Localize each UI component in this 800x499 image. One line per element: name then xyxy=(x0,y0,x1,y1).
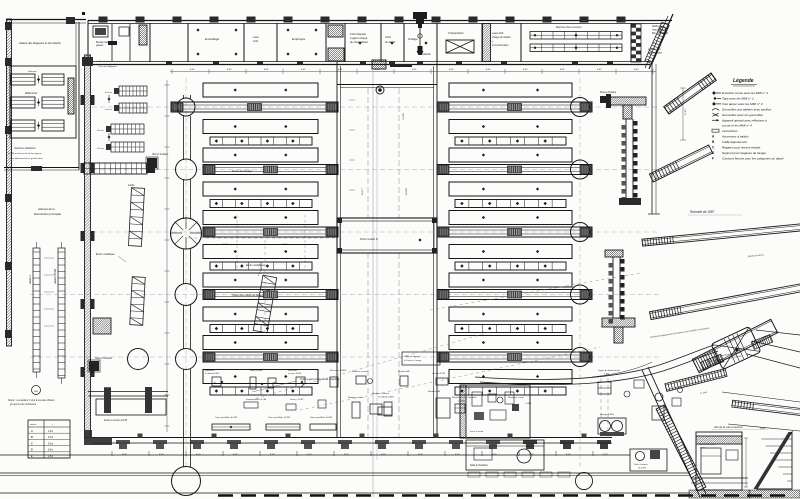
svg-text:chargé de l'atelier: chargé de l'atelier xyxy=(492,36,511,39)
svg-text:Adresse de la: Adresse de la xyxy=(37,207,55,211)
svg-text:du dépôt: du dépôt xyxy=(385,40,395,44)
svg-text:Machine-940: Machine-940 xyxy=(428,390,441,393)
svg-text:rétrocession: rétrocession xyxy=(648,50,663,54)
svg-text:n 1933: n 1933 xyxy=(525,403,532,405)
svg-text:Fosse à verser à 0,50: Fosse à verser à 0,50 xyxy=(104,419,128,422)
svg-text:Heures fontaine: Heures fontaine xyxy=(95,357,113,360)
svg-text:4 cases: 4 cases xyxy=(105,91,112,94)
svg-text:Ascenseurs pour le: Ascenseurs pour le xyxy=(699,443,716,446)
svg-text:Emballage: Emballage xyxy=(205,37,220,41)
svg-text:Puits à fermer: Puits à fermer xyxy=(634,463,648,466)
svg-text:Écran métallique: Écran métallique xyxy=(246,264,265,267)
svg-text:+: + xyxy=(653,41,655,45)
svg-text:Type avec les MMI n° 2: Type avec les MMI n° 2 xyxy=(722,96,754,100)
svg-text:à l'OM au dessus du sol du mag: à l'OM au dessus du sol du magasin xyxy=(8,153,42,155)
svg-text:Camions fermés pour les catégo: Camions fermés pour les catégories du dé… xyxy=(722,156,784,160)
svg-text:Vauchoux téléphone: Vauchoux téléphone xyxy=(14,147,36,150)
svg-text:Trains à gaz pompe été au ch: Trains à gaz pompe été au chaudière xyxy=(300,378,340,381)
svg-text:Réfectoire: Réfectoire xyxy=(25,91,38,95)
svg-text:Lorsqué D 912: Lorsqué D 912 xyxy=(432,373,446,375)
svg-text:6,5m: 6,5m xyxy=(48,450,53,452)
svg-text:Forge de déplacement: Forge de déplacement xyxy=(598,369,620,372)
svg-text:Salle à chaudière: Salle à chaudière xyxy=(470,465,488,467)
svg-text:Tours parallèles D-760: Tours parallèles D-760 xyxy=(268,417,291,419)
svg-text:Remise des ouvriers: Remise des ouvriers xyxy=(556,25,582,29)
svg-text:Caillé dajustement: Caillé dajustement xyxy=(722,140,747,144)
svg-text:F: F xyxy=(712,156,714,160)
svg-text:à agent chargé: à agent chargé xyxy=(350,36,368,40)
svg-text:Stores fontaine: Stores fontaine xyxy=(600,91,617,94)
svg-text:Meuleuse à scies: Meuleuse à scies xyxy=(508,397,524,399)
svg-text:poste: poste xyxy=(699,446,705,449)
svg-text:Mortil D-904: Mortil D-904 xyxy=(250,369,263,372)
svg-text:Voie aérien avec les MMI n° 3: Voie aérien avec les MMI n° 3 xyxy=(722,102,763,106)
svg-text:Écran métallique: Écran métallique xyxy=(96,253,115,256)
svg-text:Employés: Employés xyxy=(292,37,306,41)
svg-text:Manutention principale: Manutention principale xyxy=(34,212,62,216)
svg-text:fosse à visiter: fosse à visiter xyxy=(470,430,484,433)
svg-text:Meuleuse à rabo: Meuleuse à rabo xyxy=(348,396,364,399)
svg-text:Écrouané D-906: Écrouané D-906 xyxy=(330,369,347,372)
svg-text:8 cases: 8 cases xyxy=(97,130,104,132)
svg-text:Légende: Légende xyxy=(733,78,754,84)
svg-text:Salle pour: Salle pour xyxy=(652,24,664,28)
svg-text:6,0m: 6,0m xyxy=(48,437,53,439)
svg-text:à raboter E-903: à raboter E-903 xyxy=(205,372,220,375)
svg-text:Galerie des Magasins et des Dé: Galerie des Magasins et des Dépôts xyxy=(19,41,62,45)
svg-text:du chancelariat: du chancelariat xyxy=(350,40,368,44)
svg-text:6 cases: 6 cases xyxy=(97,148,104,150)
svg-text:Gonouilles aux ateliers avec p: Gonouilles aux ateliers avec pavillon xyxy=(722,107,772,111)
svg-text:à 80t: à 80t xyxy=(604,373,609,376)
svg-text:Lava chef: Lava chef xyxy=(492,31,504,35)
svg-text:Atelier A: Atelier A xyxy=(29,275,32,285)
svg-text:ge que la cour entretenue: ge que la cour entretenue xyxy=(10,403,37,406)
svg-text:Caille: Caille xyxy=(128,184,135,187)
svg-text:de 1750: de 1750 xyxy=(638,468,647,470)
svg-text:à 4 vérins p. levage: à 4 vérins p. levage xyxy=(404,359,422,362)
svg-text:Lavabo bis: Lavabo bis xyxy=(648,47,661,51)
svg-text:4,5m: 4,5m xyxy=(48,430,53,433)
svg-text:6 cases: 6 cases xyxy=(105,109,112,111)
svg-text:Cour des Magasins: Cour des Magasins xyxy=(98,66,118,68)
svg-text:Appareil spécial avec réflecte: Appareil spécial avec réflecteur à xyxy=(721,118,767,122)
svg-text:Machines à percer: Machines à percer xyxy=(372,392,389,395)
svg-text:21,50: 21,50 xyxy=(685,109,687,116)
svg-text:Vestibule: Vestibule xyxy=(420,52,431,56)
svg-text:Rotonde de 1687: Rotonde de 1687 xyxy=(690,210,715,214)
svg-text:Meuleuse: Meuleuse xyxy=(205,370,215,372)
svg-text:A: A xyxy=(30,431,33,433)
svg-text:Ateliers BCDE: Ateliers BCDE xyxy=(54,268,57,285)
svg-text:et à Mortil D-908: et à Mortil D-908 xyxy=(378,396,394,399)
svg-text:le Contremaître: le Contremaître xyxy=(492,44,509,47)
svg-text:Machine 940: Machine 940 xyxy=(398,370,410,373)
svg-text:chef: chef xyxy=(253,39,258,43)
svg-text:Machines à percer: Machines à percer xyxy=(352,371,369,373)
svg-text:1,500: 1,500 xyxy=(760,428,766,430)
svg-text:Grillage: Grillage xyxy=(408,37,418,41)
svg-text:Fours p. D-747: Fours p. D-747 xyxy=(290,398,304,401)
svg-text:Toilles pour dépôt de pièces: Toilles pour dépôt de pièces xyxy=(232,294,264,297)
svg-text:l'eau chaude: l'eau chaude xyxy=(652,27,667,31)
svg-text:Chef d'équipe: Chef d'équipe xyxy=(350,32,366,36)
svg-text:Gonouilles avec les gonouilles: Gonouilles avec les gonouilles xyxy=(722,113,763,117)
svg-text:pour Maisonneuve les grands tu: pour Maisonneuve les grands tubes xyxy=(9,157,43,160)
svg-text:Fours parallèles E-746: Fours parallèles E-746 xyxy=(246,398,267,401)
svg-text:à percer E-905: à percer E-905 xyxy=(288,373,302,375)
svg-text:Charpenterie: Charpenterie xyxy=(448,31,464,35)
svg-text:Régates pour lessive éclairé: Régates pour lessive éclairé xyxy=(722,146,761,150)
svg-text:Grange à 80m: Grange à 80m xyxy=(600,414,614,416)
svg-text:Ascenseur à ballots: Ascenseur à ballots xyxy=(721,135,749,139)
svg-text:10,000: 10,000 xyxy=(403,113,405,120)
svg-text:gardes: gardes xyxy=(96,44,104,47)
svg-text:Lava: Lava xyxy=(253,35,259,39)
svg-text:Machines: Machines xyxy=(288,370,298,372)
svg-text:Rameaux: Rameaux xyxy=(28,71,38,73)
svg-text:Tours parallèles E-748: Tours parallèles E-748 xyxy=(215,416,238,419)
svg-text:35,577: 35,577 xyxy=(362,188,364,195)
svg-text:Abri de la voie à traverse: Abri de la voie à traverse xyxy=(713,425,743,429)
svg-text:Fosse du Garage: Fosse du Garage xyxy=(232,169,253,173)
svg-text:courte et les MMI n° 4: courte et les MMI n° 4 xyxy=(722,124,752,128)
svg-text:Instructions: Instructions xyxy=(722,129,738,133)
svg-text:ateliers: ateliers xyxy=(30,423,36,426)
svg-text:Notice : Les ateliers C et E à: Notice : Les ateliers C et E à une des c… xyxy=(8,399,55,402)
svg-text:Tours parallèles E-764: Tours parallèles E-764 xyxy=(310,416,333,419)
svg-text:Support pour bagasse de lavage: Support pour bagasse de lavage xyxy=(722,151,766,155)
svg-text:45,000: 45,000 xyxy=(405,188,408,195)
svg-text:Enceinte munie avec les MMI n°: Enceinte munie avec les MMI n° 1 xyxy=(722,91,768,95)
svg-text:Heures fontaine: Heures fontaine xyxy=(152,153,169,156)
svg-text:8,0m: 8,0m xyxy=(48,443,53,445)
svg-text:Le Breuil et des: Le Breuil et des xyxy=(96,60,112,63)
svg-text:Bis. bog 1690: Bis. bog 1690 xyxy=(652,31,668,35)
svg-text:Pont roulant P: Pont roulant P xyxy=(360,237,378,241)
